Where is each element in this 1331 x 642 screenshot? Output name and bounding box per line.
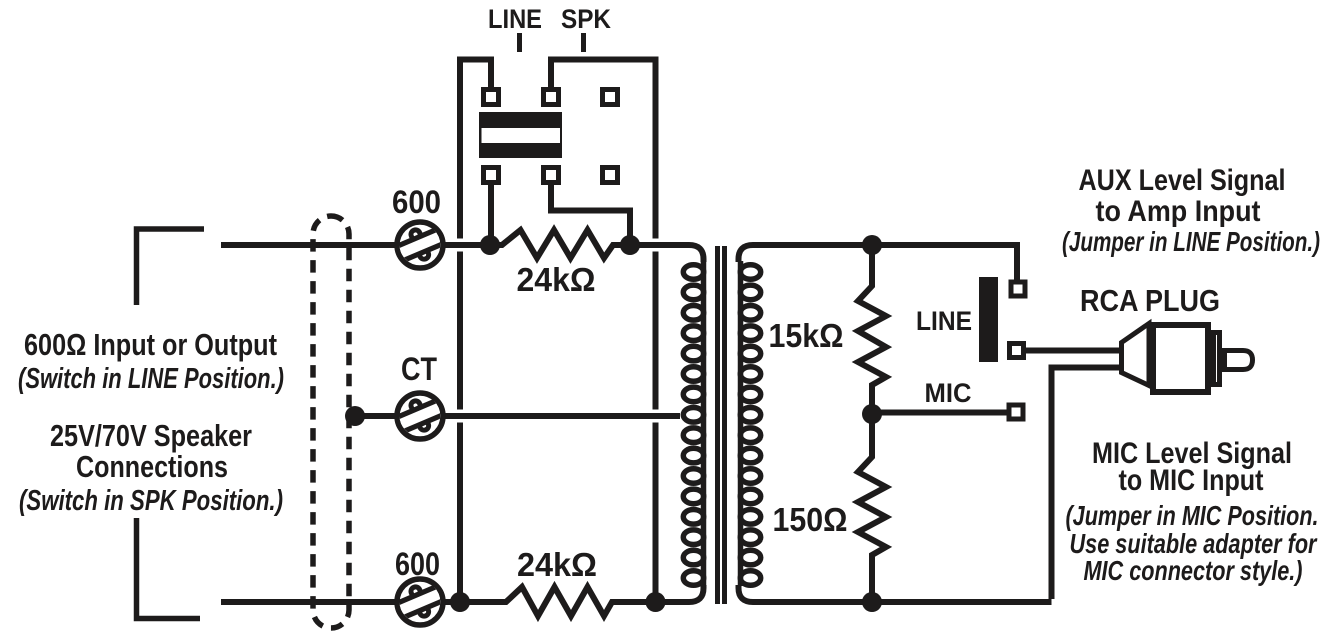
jumper pin 3 (SPK top-right) <box>603 90 618 105</box>
screw terminal CT <box>390 391 450 440</box>
svg-text:AUX Level Signal: AUX Level Signal <box>1079 164 1286 197</box>
wire: left rail from jumper frame to bottom line (crossovers broken) <box>460 60 491 597</box>
pin B (LINE output) <box>1010 344 1024 358</box>
pin C (MIC output) <box>1009 405 1023 419</box>
wire: center tap (CT) to primary center <box>348 413 680 419</box>
junction: shield / CT <box>345 406 365 426</box>
junction: R3/R4 MIC tap <box>862 404 882 424</box>
wire: MIC tap to pin C <box>872 410 1009 416</box>
transformer T1 secondary winding <box>740 265 760 586</box>
resistors R3 15k and R4 150 chain <box>858 245 886 602</box>
RCA plug P1 tip <box>1225 351 1253 370</box>
jumper pin 4 (bottom-left) <box>484 168 499 183</box>
wire: secondary top to AUX pin A <box>739 245 1018 282</box>
svg-text:600Ω Input or Output: 600Ω Input or Output <box>24 327 277 362</box>
RCA plug P1 body <box>1153 325 1208 392</box>
svg-text:600: 600 <box>392 184 441 220</box>
junction: R1 right / pin5 <box>620 235 640 255</box>
transformer T1 primary winding <box>683 265 703 586</box>
jumper pin 2 (top-middle) <box>544 90 559 105</box>
jumper shunt in LINE position (output select) <box>979 277 998 362</box>
wire: top 600 line + resistor R1 24k + hook to primary top <box>221 230 704 262</box>
jumper pin 6 (bottom-right) <box>603 168 618 183</box>
left grouping bracket (top half) <box>137 229 205 305</box>
SPK label tick <box>581 33 586 52</box>
transformer T1 core <box>718 246 725 604</box>
left grouping bracket (bottom half) <box>137 518 201 619</box>
svg-text:(Jumper in MIC Position.: (Jumper in MIC Position. <box>1066 500 1319 531</box>
svg-text:150Ω: 150Ω <box>773 501 848 538</box>
pin A (AUX top) <box>1011 282 1025 296</box>
junction: R1 left / pin4 <box>480 235 500 255</box>
jumper pin 5 (bottom-middle) <box>544 168 559 183</box>
LINE label tick <box>517 33 522 52</box>
svg-text:RCA PLUG: RCA PLUG <box>1080 283 1220 318</box>
svg-text:to Amp Input: to Amp Input <box>1096 195 1261 228</box>
svg-text:24kΩ: 24kΩ <box>517 261 596 298</box>
wire: secondary bottom rail <box>739 585 1052 602</box>
svg-text:LINE: LINE <box>488 4 542 34</box>
svg-text:24kΩ: 24kΩ <box>517 546 597 583</box>
svg-text:(Switch in LINE Position.): (Switch in LINE Position.) <box>18 363 284 395</box>
svg-text:(Jumper in LINE Position.): (Jumper in LINE Position.) <box>1062 226 1320 257</box>
svg-text:Connections: Connections <box>76 449 228 484</box>
svg-text:to MIC Input: to MIC Input <box>1119 464 1264 497</box>
wire: jumper pin 5 stub L to resistor R1 right <box>551 182 630 238</box>
jumper shunt in LINE position <box>479 112 562 158</box>
wire: bottom 600 line + resistor R2 24k + hook to primary bottom <box>221 585 704 616</box>
svg-text:SPK: SPK <box>561 4 611 34</box>
svg-text:15kΩ: 15kΩ <box>769 317 844 354</box>
primary winding chain line <box>701 261 707 586</box>
svg-text:CT: CT <box>401 351 437 387</box>
wire: jumper pin 4 stub to top line <box>488 182 494 238</box>
junction: left rail / bottom line <box>450 592 470 612</box>
wire: RCA shield return to bottom rail <box>1052 368 1125 600</box>
cable shield (dashed oval) <box>313 216 349 628</box>
svg-text:600: 600 <box>395 546 440 582</box>
junction: right rail / bottom line <box>646 592 666 612</box>
screw terminal 600 (bottom) <box>390 577 450 626</box>
svg-text:LINE: LINE <box>916 306 972 336</box>
wire: right rail from jumper frame to bottom line (crossovers broken) <box>551 60 656 597</box>
RCA plug P1 collar <box>1214 333 1220 385</box>
svg-text:MIC: MIC <box>925 378 972 408</box>
svg-text:(Switch in SPK Position.): (Switch in SPK Position.) <box>19 485 283 517</box>
RCA plug P1 boot <box>1122 324 1150 386</box>
svg-text:MIC connector style.): MIC connector style.) <box>1084 555 1303 586</box>
screw terminal 600 (top) <box>390 220 450 269</box>
junction: secondary top / R3 <box>862 235 882 255</box>
svg-text:25V/70V Speaker: 25V/70V Speaker <box>50 418 252 453</box>
wire: pin B to RCA plug center <box>1026 348 1124 354</box>
junction: secondary bottom / R4 <box>862 592 882 612</box>
jumper pin 1 (LINE top-left) <box>484 90 499 105</box>
secondary winding chain line <box>738 261 744 586</box>
